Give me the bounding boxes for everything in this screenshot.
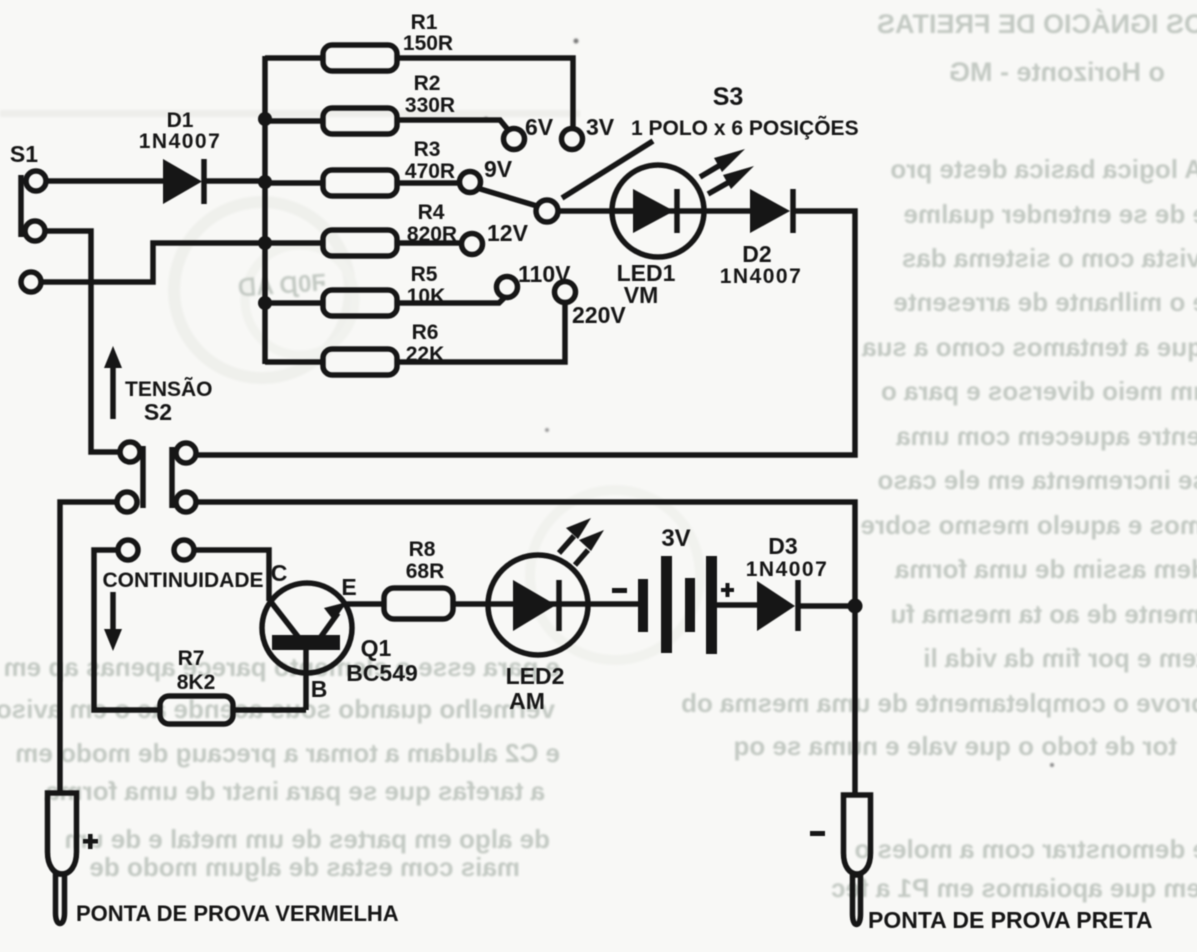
resistor R7 8K2: [160, 647, 233, 724]
svg-text:entre aquecem com uma: entre aquecem com uma: [896, 421, 1197, 451]
switch S2: [117, 399, 196, 512]
LED LED1 VM: [612, 165, 751, 308]
svg-text:mente de ao ta mesma fu: mente de ao ta mesma fu: [890, 599, 1197, 629]
svg-text:CONTINUIDADE: CONTINUIDADE: [103, 569, 264, 592]
black probe: [810, 795, 871, 925]
node right rail / D3: [848, 599, 863, 614]
svg-text:1N4007: 1N4007: [746, 558, 829, 581]
svg-text:OS IGNÁCIO DE FREITAS: OS IGNÁCIO DE FREITAS: [877, 8, 1197, 39]
terminal 3V: [562, 114, 615, 150]
svg-text:Q1: Q1: [361, 635, 392, 661]
wire D3 to right rail: [800, 603, 855, 609]
svg-text:dem assim de uma forma: dem assim de uma forma: [894, 554, 1197, 584]
svg-text:6V: 6V: [525, 114, 554, 140]
battery 3V: [612, 525, 734, 654]
svg-text:R8: R8: [409, 538, 436, 561]
svg-text:68R: 68R: [406, 560, 445, 583]
LED2 light arrows: [559, 518, 604, 565]
svg-text:D2: D2: [742, 241, 771, 267]
svg-text:220V: 220V: [572, 302, 626, 328]
switch S3 common terminal: [536, 200, 558, 222]
node R4: [258, 236, 272, 250]
svg-text:R7: R7: [178, 647, 205, 670]
svg-text:e o milhante de arresente: e o milhante de arresente: [893, 287, 1197, 317]
svg-text:e de se entender qualme: e de se entender qualme: [904, 199, 1197, 229]
diode D3 1N4007: [746, 533, 829, 631]
svg-text:um meio diversos e para o: um meio diversos e para o: [881, 376, 1197, 406]
svg-text:8K2: 8K2: [177, 671, 216, 694]
svg-text:e demonstrar com a moles o: e demonstrar com a moles o: [854, 834, 1197, 864]
continuity arrow: [104, 592, 122, 651]
wire S1 top to D1: [45, 178, 164, 184]
svg-text:9V: 9V: [484, 156, 513, 182]
svg-text:se incrementa em ele caso: se incrementa em ele caso: [877, 465, 1197, 495]
svg-text:S3: S3: [713, 83, 744, 111]
terminal 6V: [504, 114, 554, 150]
resistor R4 820R: [265, 201, 462, 256]
diode D1 1N4007: [139, 109, 222, 204]
diode D2 1N4007: [720, 189, 803, 288]
wire S2 bottom-left to probe rail: [60, 502, 118, 795]
svg-text:de algo em partes de um metal: de algo em partes de um metal e de um: [65, 824, 550, 854]
transistor Q1 BC549: [262, 560, 418, 710]
svg-text:B: B: [311, 676, 328, 702]
LED1 light arrows: [700, 149, 754, 194]
wire battery to D3: [717, 602, 760, 608]
svg-text:tor de todo o que vale e numa: tor de todo o que vale e numa se oq: [733, 731, 1177, 761]
svg-text:R6: R6: [412, 321, 439, 344]
wire D2 to right rail, down to S2: [196, 211, 855, 455]
resistor R8 68R: [384, 538, 453, 619]
svg-text:1 POLO x 6 POSIÇÕES: 1 POLO x 6 POSIÇÕES: [631, 116, 859, 140]
resistor R3 470R: [265, 138, 460, 196]
svg-text:1N4007: 1N4007: [720, 265, 803, 288]
svg-text:C: C: [271, 560, 288, 586]
svg-text:vista com o sistema das: vista com o sistema das: [902, 243, 1197, 273]
wire S2 bottom-right to right rail: [195, 502, 855, 795]
svg-text:3V: 3V: [586, 114, 615, 140]
svg-text:PONTA DE PROVA VERMELHA: PONTA DE PROVA VERMELHA: [76, 901, 399, 926]
svg-text:em que apoiamos em P1 a fec: em que apoiamos em P1 a fec: [831, 873, 1197, 903]
svg-text:R1: R1: [411, 11, 438, 34]
svg-text:D1: D1: [167, 109, 194, 132]
rotary switch S3 label: [562, 83, 859, 198]
resistor R2 330R: [265, 72, 509, 134]
node R5: [258, 296, 272, 310]
continuity contacts: [118, 540, 194, 560]
resistor R6 22K: [265, 304, 565, 375]
svg-text:E: E: [341, 574, 356, 600]
node R2: [258, 112, 272, 126]
svg-text:que a tentamos como a sua: que a tentamos como a sua: [861, 332, 1197, 362]
svg-text:e C2 aludam a tomar a precaug: e C2 aludam a tomar a precaug de modo em: [15, 738, 560, 768]
svg-text:LED2: LED2: [506, 663, 565, 689]
svg-text:R5: R5: [411, 263, 438, 286]
svg-text:1N4007: 1N4007: [139, 130, 222, 153]
svg-text:R4: R4: [418, 201, 445, 224]
svg-text:D3: D3: [768, 533, 797, 559]
svg-text:S1: S1: [10, 141, 38, 167]
wire R8 to battery: [453, 601, 640, 607]
svg-text:470R: 470R: [405, 160, 455, 183]
switch S1: [10, 141, 46, 292]
svg-text:R2: R2: [414, 72, 441, 95]
TENSAO range arrow: [104, 346, 213, 419]
svg-text:330R: 330R: [405, 94, 455, 117]
svg-text:mos e aquelo mesmo sobre: mos e aquelo mesmo sobre: [861, 510, 1197, 540]
red probe: [48, 793, 99, 924]
wire R7 to Q1 base: [233, 707, 306, 713]
svg-text:a tarefas que se para instr de: a tarefas que se para instr de uma forma: [44, 776, 545, 806]
terminal 12V: [462, 220, 529, 255]
svg-text:ᗡA Ɋ0Ϝ: ᗡA Ɋ0Ϝ: [237, 269, 327, 302]
svg-text:tem e por fim da vida li: tem e por fim da vida li: [923, 643, 1197, 673]
svg-text:3V: 3V: [661, 525, 690, 552]
terminal 220V: [555, 282, 627, 329]
wire S1 bottom to bus node: [40, 243, 268, 282]
wire continuity right to Q1 collector: [194, 550, 269, 601]
svg-text:TENSÃO: TENSÃO: [125, 378, 213, 401]
svg-text:PONTA DE PROVA PRETA: PONTA DE PROVA PRETA: [868, 907, 1153, 933]
svg-text:12V: 12V: [487, 220, 529, 246]
resistor R5 10K: [265, 263, 505, 316]
switch S3 arm: [477, 188, 537, 206]
wire continuity left to R7: [94, 550, 162, 710]
svg-text:R3: R3: [414, 138, 441, 161]
svg-text:S2: S2: [144, 399, 172, 425]
svg-text:mais com estas de algum modo d: mais com estas de algum modo de: [89, 852, 520, 882]
svg-text:VM: VM: [624, 282, 659, 308]
LED LED2 AM: [488, 555, 588, 714]
svg-text:AM: AM: [509, 688, 545, 714]
svg-text:A logica basica deste pro: A logica basica deste pro: [890, 154, 1197, 184]
svg-text:prove o completamente de uma m: prove o completamente de uma mesma ob: [681, 688, 1197, 718]
node R3: [258, 175, 272, 189]
terminal 110V: [497, 261, 572, 298]
svg-text:o Horizonte - MG: o Horizonte - MG: [949, 57, 1165, 87]
bus wire (left ladder): [262, 56, 268, 364]
svg-text:BC549: BC549: [346, 660, 418, 686]
wire Q1 emitter to R8: [344, 601, 386, 607]
svg-text:150R: 150R: [403, 32, 453, 55]
resistor R1 150R: [265, 11, 573, 129]
wire D1 to bus node: [206, 178, 268, 184]
terminal 9V: [460, 156, 513, 193]
wire S3 to LED1: [558, 208, 633, 214]
wire S1 middle to S2: [44, 231, 121, 452]
